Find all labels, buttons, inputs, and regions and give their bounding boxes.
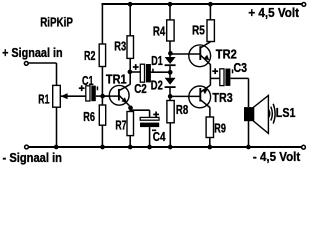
capacitor C4 plus xyxy=(153,112,159,118)
terminal - Signaal in xyxy=(25,145,29,149)
label TR3 xyxy=(212,90,232,105)
junction D2-R8-TR3base xyxy=(168,94,173,99)
label + Signaal in xyxy=(2,45,63,60)
junction R9-rail xyxy=(207,145,212,150)
wire top supply rail xyxy=(102,4,302,44)
svg-text:R2: R2 xyxy=(84,48,95,63)
svg-text:TR1: TR1 xyxy=(106,72,127,87)
wire TR2 base xyxy=(170,53,200,55)
wire TR3 base xyxy=(170,95,200,97)
junction TR1 emitter node xyxy=(128,106,133,111)
label R7 xyxy=(115,118,126,133)
svg-text:RiPKiP: RiPKiP xyxy=(40,15,73,30)
wire rail to R5 xyxy=(209,4,211,20)
capacitor C2 minus tick xyxy=(152,69,154,73)
svg-text:- 4,5 Volt: - 4,5 Volt xyxy=(253,149,301,164)
wire bottom supply rail xyxy=(29,146,302,148)
wire node to R6 xyxy=(101,96,103,105)
junction R4-toprail xyxy=(168,2,173,7)
label R6 xyxy=(83,109,95,124)
wire C2 right xyxy=(151,71,170,73)
label TR2 xyxy=(216,47,237,62)
capacitor C3 plus xyxy=(212,68,218,74)
capacitor C4 minus xyxy=(152,130,156,132)
capacitor C1 xyxy=(86,86,96,102)
svg-text:C1: C1 xyxy=(82,73,94,88)
label - 4,5 Volt xyxy=(253,149,301,164)
svg-text:R7: R7 xyxy=(115,118,126,133)
wire C1 to node xyxy=(96,95,110,97)
svg-text:R9: R9 xyxy=(214,120,226,135)
label LS1 xyxy=(276,105,296,120)
junction R4-D1-TR2base xyxy=(168,51,173,56)
wire C3 to speaker xyxy=(230,78,248,107)
svg-text:R1: R1 xyxy=(38,91,49,106)
label C1 xyxy=(82,73,94,88)
wire R3 to C2 node xyxy=(129,58,131,71)
resistor R7 xyxy=(127,112,134,136)
wire C3 left xyxy=(210,77,219,79)
svg-text:TR3: TR3 xyxy=(212,90,232,105)
speaker LS1 waves xyxy=(269,104,276,124)
resistor R5 xyxy=(207,20,214,42)
terminal + Signaal in xyxy=(24,62,28,66)
junction R1-rail xyxy=(54,145,59,150)
resistor R6 xyxy=(99,105,105,125)
resistor R3 xyxy=(127,36,134,59)
wire R1 to rail xyxy=(56,107,58,147)
label TR1 xyxy=(106,72,127,87)
svg-text:R5: R5 xyxy=(192,23,205,38)
junction C1-R2-R6 node xyxy=(100,94,105,99)
svg-text:R6: R6 xyxy=(83,109,95,124)
wire R8 to rail xyxy=(169,123,171,147)
capacitor C1 minus tick xyxy=(97,86,99,90)
wire R7 to rail xyxy=(129,136,131,147)
junction D1-D2-C2 node xyxy=(168,70,173,75)
label D2 xyxy=(151,78,163,93)
label R2 xyxy=(84,48,95,63)
label C4 xyxy=(153,129,166,144)
speaker LS1 cone xyxy=(254,95,269,133)
svg-text:+ 4,5 Volt: + 4,5 Volt xyxy=(248,5,299,20)
svg-text:C3: C3 xyxy=(234,60,248,75)
label - Signaal in xyxy=(3,150,63,165)
label R8 xyxy=(176,102,188,117)
wire input to R1 xyxy=(29,63,57,85)
junction LS1-rail xyxy=(246,145,251,150)
label + 4,5 Volt xyxy=(248,5,299,20)
terminal + 4,5 Volt xyxy=(302,3,306,7)
wire R2 to node xyxy=(101,67,103,97)
wire TR1 node to C4 xyxy=(130,110,149,117)
wire speaker to rail xyxy=(248,121,250,147)
wire TR1 base xyxy=(103,95,119,97)
wire R9 to rail xyxy=(209,138,211,148)
wire R4 to D1 xyxy=(169,41,171,53)
svg-text:- Signaal in: - Signaal in xyxy=(3,150,63,165)
capacitor C2 plus xyxy=(133,64,139,70)
label D1 xyxy=(151,53,163,68)
resistor R8 xyxy=(167,101,174,123)
label C2 xyxy=(134,81,147,96)
label R3 xyxy=(114,38,126,53)
capacitor C2 xyxy=(140,64,151,82)
capacitor C3 minus tick xyxy=(232,69,234,73)
wiper arrow R1 xyxy=(61,93,86,99)
svg-text:R8: R8 xyxy=(176,102,188,117)
wire rail to R4 xyxy=(169,4,171,20)
label R1 xyxy=(38,91,49,106)
junction C4-rail xyxy=(147,145,152,150)
title RiPKiP xyxy=(40,15,73,30)
capacitor C3 xyxy=(220,69,231,86)
label R4 xyxy=(153,24,166,39)
svg-text:LS1: LS1 xyxy=(276,105,296,120)
wire TR2 emitter to TR3 emitter xyxy=(209,64,211,85)
speaker LS1 magnet xyxy=(244,107,254,121)
svg-text:R3: R3 xyxy=(114,38,126,53)
transistor TR2 xyxy=(189,42,211,67)
svg-text:C2: C2 xyxy=(134,81,147,96)
capacitor C4 xyxy=(140,117,159,127)
terminal - 4,5 Volt xyxy=(302,145,306,149)
label R5 xyxy=(192,23,205,38)
junction R7-rail xyxy=(128,145,133,150)
label C3 xyxy=(234,60,248,75)
wire R6 to rail xyxy=(101,125,103,147)
diode D1 xyxy=(165,53,176,72)
wire C4 to rail xyxy=(149,127,151,147)
capacitor C1 plus xyxy=(79,85,85,91)
wire node to R8 xyxy=(169,96,171,100)
svg-text:R4: R4 xyxy=(153,24,166,39)
svg-text:D2: D2 xyxy=(151,78,163,93)
wire TR3 to R9 xyxy=(209,107,211,117)
resistor R4 xyxy=(167,20,174,41)
diode D2 xyxy=(165,72,176,96)
label R9 xyxy=(214,120,226,135)
junction R3-C2-TR1 node xyxy=(128,70,133,75)
svg-text:+ Signaal in: + Signaal in xyxy=(2,45,63,60)
transistor TR1 xyxy=(109,84,130,107)
wire node down to TR1 collector xyxy=(129,72,131,85)
svg-text:D1: D1 xyxy=(151,53,163,68)
wire node to R7 xyxy=(129,108,131,112)
wire C2 left xyxy=(130,71,140,73)
resistor R1 xyxy=(53,85,61,107)
transistor TR3 xyxy=(189,85,211,108)
resistor R9 xyxy=(206,117,213,138)
junction R6-rail xyxy=(100,145,105,150)
resistor R2 xyxy=(99,44,105,67)
junction R5-toprail xyxy=(208,2,213,7)
svg-text:C4: C4 xyxy=(153,129,166,144)
wire rail to R3 xyxy=(129,4,131,36)
junction R3-toprail xyxy=(128,2,133,7)
junction R8-rail xyxy=(168,145,173,150)
